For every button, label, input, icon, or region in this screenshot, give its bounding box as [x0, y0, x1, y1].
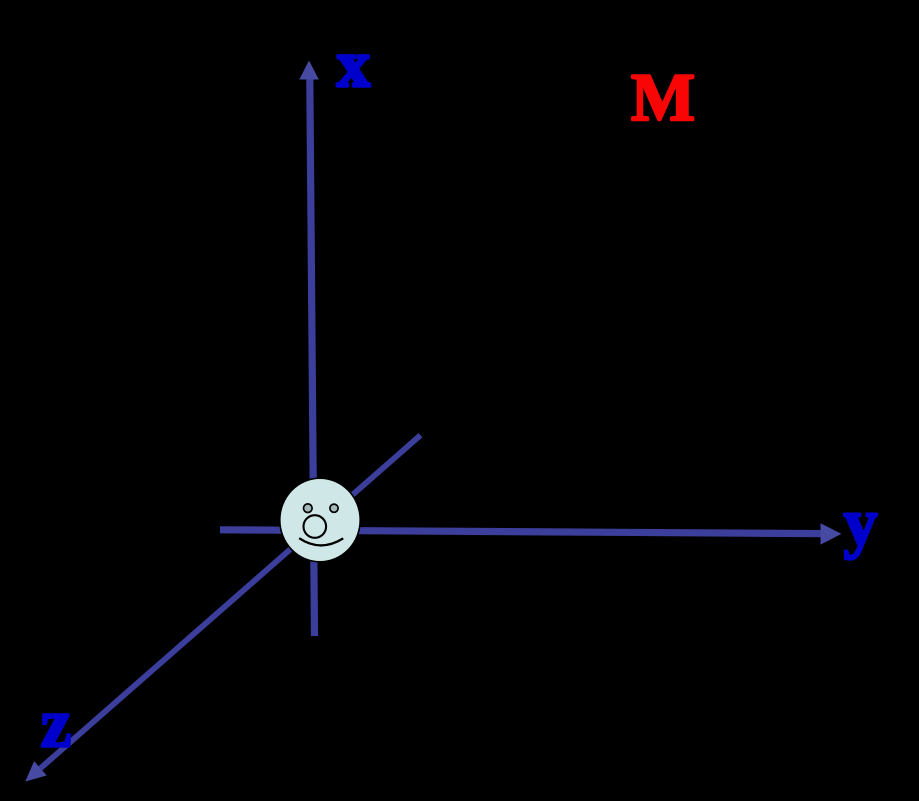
svg-text:x: x [337, 28, 370, 101]
svg-text:y: y [844, 484, 878, 560]
svg-text:M: M [631, 59, 695, 135]
svg-text:z: z [41, 686, 72, 763]
